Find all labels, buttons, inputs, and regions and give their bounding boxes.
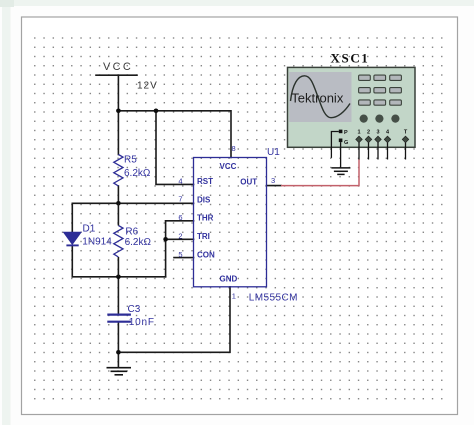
svg-text:U1: U1 [267,147,280,158]
svg-text:3: 3 [376,130,379,136]
svg-text:1: 1 [357,130,360,136]
svg-text:10nF: 10nF [129,317,155,328]
svg-text:R5: R5 [124,154,137,165]
svg-text:C3: C3 [128,304,141,315]
svg-text:OUT: OUT [240,178,257,187]
svg-text:3: 3 [271,176,275,185]
svg-text:R6: R6 [125,226,138,237]
svg-text:DIS: DIS [197,195,211,204]
svg-text:6.2kΩ: 6.2kΩ [125,237,152,248]
svg-text:6.2kΩ: 6.2kΩ [124,168,151,179]
svg-text:8: 8 [232,144,236,153]
svg-text:Tektronix: Tektronix [291,90,344,105]
svg-text:TRI: TRI [197,232,210,241]
svg-text:GND: GND [220,275,238,284]
svg-text:VCC: VCC [103,61,133,73]
svg-text:2: 2 [178,232,182,241]
svg-text:P: P [344,130,348,136]
svg-text:VCC: VCC [220,162,237,171]
svg-text:THR: THR [197,214,214,223]
svg-text:XSC1: XSC1 [331,51,370,66]
svg-text:5: 5 [178,250,182,259]
svg-text:RST: RST [197,177,213,186]
svg-text:12V: 12V [137,81,158,92]
svg-text:2: 2 [367,130,370,136]
svg-text:D1: D1 [83,224,96,235]
svg-text:7: 7 [178,195,182,204]
svg-text:1: 1 [232,292,236,301]
svg-text:6: 6 [178,213,182,222]
svg-text:CON: CON [197,250,215,259]
svg-text:1N914: 1N914 [82,236,112,247]
svg-text:LM555CM: LM555CM [249,293,298,304]
svg-text:G: G [344,140,348,146]
svg-text:4: 4 [178,177,182,186]
